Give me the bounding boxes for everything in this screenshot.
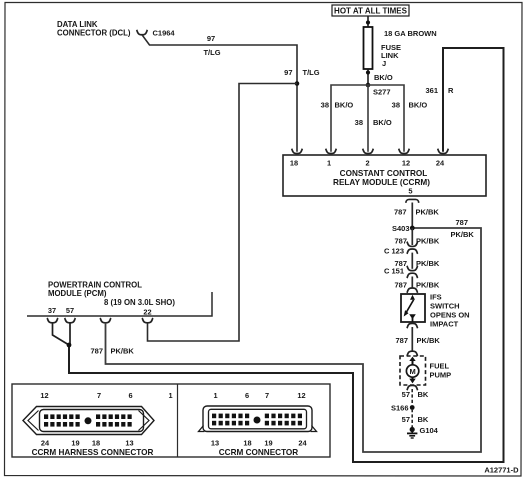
svg-text:5: 5 [408, 187, 412, 196]
svg-text:CONSTANT CONTROL: CONSTANT CONTROL [340, 169, 428, 178]
IFS switch, opens on impact [401, 293, 470, 329]
svg-text:BK/O: BK/O [374, 73, 393, 82]
svg-text:CONNECTOR (DCL): CONNECTOR (DCL) [57, 29, 131, 38]
svg-text:HOT AT ALL TIMES: HOT AT ALL TIMES [334, 7, 408, 16]
wire 38 BK/O right branch to CCRM pin 12 [368, 85, 427, 154]
svg-text:C 151: C 151 [384, 267, 404, 276]
svg-text:57: 57 [402, 415, 410, 424]
svg-text:13: 13 [125, 439, 133, 448]
wire BK/O fuse link to S277 [366, 69, 393, 85]
svg-text:CCRM HARNESS CONNECTOR: CCRM HARNESS CONNECTOR [32, 448, 154, 457]
CCRM module box [283, 155, 486, 196]
connector detail box [12, 384, 330, 457]
svg-text:37: 37 [48, 306, 56, 315]
connector C 123 [384, 242, 418, 256]
svg-text:S166: S166 [391, 404, 409, 413]
wire 38 BK/O to CCRM pin 2 [355, 85, 392, 154]
svg-text:C 123: C 123 [384, 247, 404, 256]
svg-text:IMPACT: IMPACT [430, 320, 459, 329]
connector C 151 [384, 266, 418, 278]
svg-text:BK/O: BK/O [335, 101, 354, 110]
CCRM connector pinout [199, 391, 317, 457]
splice S277 [366, 83, 391, 97]
wire 787 PK/BK S403 to C123 [394, 228, 439, 246]
wire hot feed to fuse link [366, 16, 370, 27]
svg-text:97: 97 [207, 34, 215, 43]
svg-text:97: 97 [284, 68, 292, 77]
svg-text:M: M [409, 367, 415, 376]
wire 787 PK/BK C123 to C151 [394, 253, 439, 269]
svg-text:24: 24 [298, 439, 307, 448]
svg-text:CCRM CONNECTOR: CCRM CONNECTOR [219, 448, 299, 457]
svg-text:G104: G104 [420, 426, 439, 435]
fuel pump motor M [400, 356, 451, 390]
svg-text:PK/BK: PK/BK [416, 208, 440, 217]
svg-text:T/LG: T/LG [203, 48, 220, 57]
svg-text:22: 22 [143, 308, 151, 317]
svg-text:T/LG: T/LG [303, 68, 320, 77]
svg-text:13: 13 [211, 439, 219, 448]
svg-text:RELAY MODULE (CCRM): RELAY MODULE (CCRM) [333, 178, 430, 187]
CCRM pin 5 lead, wire 787 PK/BK [394, 199, 439, 226]
svg-text:18: 18 [92, 439, 100, 448]
splice S403 [392, 224, 415, 233]
wire 97 T/LG from DCL to junction [142, 34, 320, 152]
svg-text:6: 6 [245, 391, 249, 400]
svg-text:1: 1 [327, 159, 331, 168]
svg-text:OPENS ON: OPENS ON [430, 311, 470, 320]
svg-text:A12771-D: A12771-D [484, 465, 519, 474]
svg-text:1: 1 [213, 391, 217, 400]
svg-text:PK/BK: PK/BK [416, 281, 440, 290]
wire 38 BK/O left branch to CCRM pin 1 [321, 85, 368, 154]
PCM pin 37 lead [47, 318, 69, 345]
svg-text:SWITCH: SWITCH [430, 302, 460, 311]
svg-text:R: R [448, 86, 454, 95]
svg-text:18 GA BROWN: 18 GA BROWN [384, 29, 437, 38]
CCRM harness connector pinout [23, 391, 173, 457]
svg-text:12: 12 [297, 391, 305, 400]
wire 97 T/LG branch to PCM pin 22 [142, 84, 297, 342]
svg-text:IFS: IFS [430, 293, 442, 302]
svg-text:18: 18 [243, 439, 251, 448]
svg-text:S403: S403 [392, 224, 410, 233]
svg-text:BK/O: BK/O [409, 101, 428, 110]
svg-text:787: 787 [394, 208, 407, 217]
svg-text:38: 38 [355, 118, 363, 127]
svg-text:6: 6 [128, 391, 132, 400]
svg-text:PK/BK: PK/BK [416, 237, 440, 246]
svg-text:12: 12 [40, 391, 48, 400]
wire 787 PK/BK from PCM pin 8 to S403 [90, 218, 481, 452]
svg-text:361: 361 [425, 86, 438, 95]
svg-text:57: 57 [66, 306, 74, 315]
junction node on wire 97 T/LG [295, 81, 300, 86]
svg-text:C1964: C1964 [153, 29, 176, 38]
wire 787 PK/BK IFS switch to fuel pump [395, 323, 440, 356]
svg-text:BK: BK [418, 390, 429, 399]
svg-text:MODULE (PCM): MODULE (PCM) [48, 289, 107, 298]
diagram id A12771-D [484, 465, 519, 474]
junction dot pins 37/57 [67, 343, 72, 348]
svg-text:BK/O: BK/O [373, 118, 392, 127]
svg-text:PK/BK: PK/BK [111, 347, 135, 356]
wire 787 PK/BK C151 to IFS switch [394, 277, 439, 293]
svg-text:18: 18 [290, 159, 298, 168]
svg-text:787: 787 [90, 347, 103, 356]
svg-text:787: 787 [395, 336, 408, 345]
svg-text:787: 787 [394, 281, 407, 290]
svg-text:S277: S277 [373, 88, 391, 97]
svg-text:38: 38 [392, 101, 400, 110]
svg-text:J: J [382, 59, 386, 68]
svg-text:FUEL: FUEL [430, 362, 450, 371]
svg-text:12: 12 [402, 159, 410, 168]
svg-text:787: 787 [455, 218, 468, 227]
svg-text:24: 24 [41, 439, 50, 448]
ground G104 [407, 426, 439, 438]
svg-text:787: 787 [394, 237, 407, 246]
svg-text:19: 19 [71, 439, 79, 448]
svg-text:57: 57 [402, 390, 410, 399]
svg-text:19: 19 [264, 439, 272, 448]
svg-text:2: 2 [365, 159, 369, 168]
svg-text:PUMP: PUMP [430, 371, 452, 380]
svg-text:8 (19 ON 3.0L SHO): 8 (19 ON 3.0L SHO) [104, 298, 175, 307]
svg-text:BK: BK [418, 415, 429, 424]
svg-text:38: 38 [321, 101, 329, 110]
PCM module outline [27, 281, 212, 317]
svg-text:24: 24 [436, 159, 445, 168]
data link connector (DCL) C1964 [57, 20, 175, 38]
wire 361 R from PCM pins 37/57 to CCRM pin 24 [69, 48, 504, 462]
PCM pin 57 lead [65, 318, 76, 344]
svg-text:PK/BK: PK/BK [416, 259, 440, 268]
fuse link J, 18 GA BROWN [364, 27, 437, 69]
svg-text:7: 7 [265, 391, 269, 400]
wire 57 BK fuel pump to S166 [402, 389, 429, 405]
node HOT AT ALL TIMES [332, 5, 409, 16]
splice S166 [391, 404, 415, 413]
svg-text:PK/BK: PK/BK [451, 230, 475, 239]
svg-text:7: 7 [97, 391, 101, 400]
wire 57 BK S166 to ground [402, 409, 429, 427]
svg-text:1: 1 [168, 391, 172, 400]
svg-text:PK/BK: PK/BK [417, 336, 441, 345]
cup at CCRM pin 18 [292, 149, 303, 154]
